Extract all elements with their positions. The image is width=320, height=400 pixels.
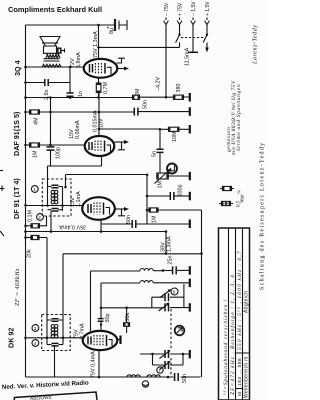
wire trimmer bottom row y307: [101, 307, 189, 309]
wire B+ feed: [99, 46, 180, 48]
svg-text:5n: 5n: [152, 151, 158, 157]
wire volume top vertical x147: [146, 175, 148, 225]
wire coil2 corner x101: [101, 283, 140, 308]
svg-text:¹⁵=Spulenabstand verschieben !: ¹⁵=Spulenabstand verschieben !: [223, 299, 229, 395]
svg-text:0,7M: 0,7M: [103, 82, 109, 94]
wire DAF91 right chassis arrow: [115, 141, 126, 143]
svg-text:3Q 4: 3Q 4: [13, 60, 22, 76]
svg-text:50n: 50n: [143, 100, 149, 109]
svg-text:DK 92: DK 92: [7, 328, 16, 348]
svg-text:0,06mA: 0,06mA: [75, 120, 81, 139]
wire B+ down to DAF91 anode: [98, 93, 100, 137]
capacitor C 2,5n: [44, 79, 50, 100]
svg-text:2M: 2M: [135, 88, 141, 96]
alignment mark 2: [37, 214, 44, 221]
capacitor C 5n: [152, 129, 164, 173]
chassis bar y129: [189, 125, 191, 134]
switch S1a: [178, 34, 180, 36]
label Stroeme und Spannungen note: [226, 80, 242, 155]
svg-text:Wellenbereich m: Wellenbereich m: [244, 356, 250, 398]
wire osc feed x65: [62, 254, 64, 320]
wire AVC vertical x50: [50, 98, 52, 147]
coil L osc: [51, 325, 58, 339]
svg-text:1,3mA: 1,3mA: [167, 236, 173, 252]
node rail-82: [24, 81, 27, 84]
capacitor C 50n coupling: [134, 100, 148, 116]
coil L filament choke b: [147, 375, 160, 377]
wire DAF91 cathode down: [48, 156, 102, 179]
svg-text:Schaltung des Reisesupers Lore: Schaltung des Reisesupers Lorenz-Teddy: [260, 142, 266, 290]
svg-text:183 ... 588: 183 ... 588: [237, 358, 243, 386]
wire DF91 right chassis arrow: [115, 208, 126, 210]
svg-text:ZF=472 kHz , Reihenfolge : 1,: ZF=472 kHz , Reihenfolge : 1, 2, 3, 4: [229, 274, 236, 395]
wire grid row y145: [26, 144, 86, 146]
svg-text:1M: 1M: [158, 181, 164, 189]
capacitor C 50p: [98, 308, 111, 332]
svg-text:10V: 10V: [99, 118, 105, 128]
oscillator coil box dashed: [42, 315, 70, 378]
battery terminal -75V: [164, 2, 170, 97]
chassis bar y176: [189, 172, 191, 181]
svg-text:50p: 50p: [105, 314, 111, 323]
svg-text:3: 3: [34, 326, 37, 331]
svg-text:1n: 1n: [78, 91, 84, 97]
trimmer capacitor 6 loop: [152, 284, 184, 307]
svg-text:50n: 50n: [182, 374, 188, 383]
svg-text:1: 1: [33, 187, 36, 192]
node y97 junctions: [69, 96, 72, 99]
capacitor C 50n bottom: [175, 373, 188, 383]
loudspeaker: [40, 37, 65, 54]
chassis bar y224: [189, 220, 191, 229]
node IF grid wire: [26, 205, 83, 207]
wire 38V branch: [165, 232, 167, 254]
svg-text:1M: 1M: [33, 150, 39, 158]
resistor R 0,1M: [24, 210, 46, 228]
tube V3 DF91: [12, 178, 115, 220]
svg-text:DF 91 (1T 4): DF 91 (1T 4): [12, 178, 21, 219]
svg-text:100p: 100p: [56, 147, 62, 159]
chassis bar y112: [189, 107, 191, 116]
capacitor C 1n: [67, 91, 85, 97]
wire 3Q4 anode top: [98, 25, 100, 60]
coil L ant primary: [140, 268, 153, 270]
resistor R 2M: [133, 88, 142, 99]
capacitor C 100p agc: [147, 185, 189, 201]
resistor R 30k: [124, 308, 131, 333]
alignment table: [219, 228, 250, 400]
svg-text:0,5: 0,5: [237, 200, 242, 207]
capacitor C 100p: [47, 147, 62, 166]
capacitor C 25n: [163, 256, 189, 275]
capacitor bottom in osc box: [52, 343, 59, 346]
svg-text:1,1mA: 1,1mA: [76, 191, 82, 207]
wire if feed corner x90: [91, 271, 141, 331]
svg-text:2: 2: [38, 215, 41, 220]
svg-text:+ 75V: + 75V: [178, 2, 184, 16]
svg-text:2,5n: 2,5n: [44, 90, 50, 101]
svg-text:ABOUWE: ABOUWE: [30, 395, 53, 400]
svg-text:6: 6: [173, 290, 176, 295]
resistor R 10M: [169, 127, 180, 142]
margin mark a: [0, 186, 5, 192]
svg-text:Lorenz-Teddy: Lorenz-Teddy: [253, 24, 259, 65]
chassis bar y270: [189, 266, 191, 275]
wire grid line 3Q4: [26, 66, 84, 68]
alignment mark 6: [171, 288, 178, 295]
wire cathode branch: [69, 67, 71, 98]
svg-text:7: 7: [158, 368, 161, 373]
wire bottom rail: [26, 376, 201, 378]
phone jack symbol: [142, 381, 148, 387]
svg-text:0,1M: 0,1M: [28, 210, 34, 222]
svg-text:0,7mA: 0,7mA: [80, 323, 86, 339]
transformer T1 output: [42, 53, 61, 67]
battery terminal +1,5V: [203, 1, 211, 53]
wire 3Q4 right arrow: [117, 68, 126, 70]
margin mark c: [0, 170, 3, 172]
capacitor top in IF box: [52, 185, 59, 188]
capacitor top in osc box: [52, 319, 59, 322]
wire AVC feed from IF: [66, 175, 148, 188]
svg-text:4M: 4M: [34, 117, 40, 125]
wire diode row y129: [99, 128, 189, 130]
margin mark b: [0, 231, 4, 236]
svg-text:ZF = 468kHz: ZF = 468kHz: [14, 268, 21, 306]
alignment mark 4: [32, 340, 39, 347]
stamp box: [14, 392, 97, 400]
wire right bus x201: [201, 210, 203, 377]
IF transformer box dashed: [42, 179, 71, 232]
battery terminal -1,5V: [188, 1, 198, 53]
alignment mark 1: [31, 186, 38, 193]
coil L ant secondary: [140, 281, 153, 283]
trimmer capacitor 6 lower plates: [165, 303, 169, 311]
capacitor C 50n if: [126, 215, 136, 228]
svg-text:25n: 25n: [168, 256, 174, 265]
svg-text:–4,2V: –4,2V: [156, 77, 162, 91]
svg-text:8µ: 8µ: [109, 28, 115, 34]
chassis bar y97: [189, 93, 191, 102]
wire 3Q4 right chassis: [117, 58, 126, 63]
chassis bar y283: [189, 279, 191, 288]
wire top B+ rail: [26, 24, 115, 26]
battery terminal +75V: [177, 2, 183, 35]
svg-text:¼: ¼: [238, 190, 243, 194]
potentiometer R 1M volume: [155, 168, 190, 189]
resistor R 380: [174, 84, 184, 100]
svg-text:Compliments Eckhard Kull: Compliments Eckhard Kull: [8, 5, 102, 14]
capacitor bottom in IF box: [52, 209, 59, 212]
resistor R 4M: [30, 110, 40, 125]
svg-text:DAF 91(1S 5): DAF 91(1S 5): [12, 111, 21, 156]
chassis bar y354: [189, 350, 191, 359]
coil L IF primary: [51, 190, 58, 204]
svg-text:20k: 20k: [27, 249, 33, 258]
trimmer capacitor 7 loop: [140, 350, 189, 370]
svg-text:550 kHz : 5¹⁵ , 1600 kHz : 6,7: 550 kHz : 5¹⁵ , 1600 kHz : 6,7: [237, 250, 243, 350]
svg-text:11,5mA: 11,5mA: [185, 47, 191, 66]
svg-text:gemessen: gemessen: [226, 127, 232, 152]
legend resistor quarter watt: [220, 186, 246, 203]
wire left supply rail: [25, 25, 27, 377]
wire DK92 right chassis: [116, 339, 120, 341]
knob symbol volume: [167, 164, 177, 174]
node rail-67: [24, 66, 27, 69]
node spk-67: [69, 66, 72, 69]
svg-text:5,8mA: 5,8mA: [76, 52, 82, 68]
wire HT distribution y253: [63, 253, 202, 255]
alignment mark 7: [157, 367, 163, 373]
chassis bar y196: [189, 192, 191, 201]
alignment mark 3: [32, 325, 39, 332]
wire DK92 cathode to rail: [98, 350, 100, 377]
wire coupling 2,5n: [26, 82, 71, 84]
svg-text:380: 380: [176, 84, 182, 93]
svg-text:M: M: [237, 392, 242, 396]
svg-text:+ 1,5V: + 1,5V: [205, 1, 211, 16]
switch gang dashed link: [181, 37, 206, 39]
coil L filament choke a: [127, 375, 140, 377]
chassis bar y307: [189, 303, 191, 312]
svg-text:4: 4: [34, 341, 37, 346]
svg-text:Abgleich: Abgleich: [244, 291, 250, 313]
wire DF91 anode row y224: [100, 220, 102, 232]
svg-text:10M: 10M: [172, 131, 178, 142]
wire osc grid row: [26, 337, 83, 339]
wire hum rail y97: [26, 96, 190, 99]
svg-text:− 1,5V: − 1,5V: [191, 1, 197, 16]
tuning gang symbol A: [175, 326, 185, 336]
svg-text:30k: 30k: [125, 313, 131, 322]
dashed tuning gang line: [170, 309, 172, 348]
tube V2 DAF91: [12, 111, 114, 156]
wire screen row y231: [26, 231, 167, 233]
resistor R 1M agc: [147, 208, 202, 223]
svg-text:75V 0,4mA: 75V 0,4mA: [91, 351, 97, 378]
tube V1 3Q4: [13, 59, 117, 78]
wire screen row y112: [26, 111, 190, 113]
svg-text:100p: 100p: [178, 185, 184, 197]
resistor R 20k: [24, 235, 47, 320]
capacitor C 8u electrolytic: [107, 19, 128, 34]
svg-text:− 75V: − 75V: [164, 2, 170, 16]
svg-text:50n: 50n: [126, 215, 132, 224]
svg-text:1M: 1M: [152, 215, 158, 223]
resistor R 0,7M: [96, 78, 109, 98]
svg-text:35V 0,4mA: 35V 0,4mA: [59, 224, 86, 230]
node top rail junction: [97, 24, 100, 27]
legend resistor half watt: [219, 200, 242, 207]
svg-text:+: +: [107, 26, 110, 32]
tube V4 DK92: [7, 328, 118, 350]
resistor R 1M grid: [30, 143, 40, 158]
